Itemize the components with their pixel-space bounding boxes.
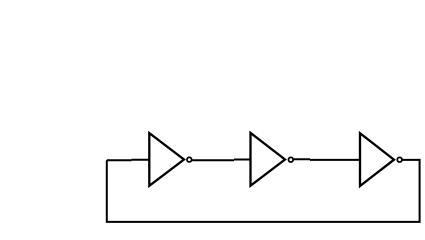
inverter U2 inversion bubble xyxy=(289,157,294,162)
wire: feedback loop from U3 output back to U1 input xyxy=(107,160,420,222)
wire: U2 output to U3 input xyxy=(294,158,360,161)
inverter U1 xyxy=(149,133,184,186)
inverter U2 xyxy=(251,133,286,186)
inverter U3 xyxy=(360,133,394,186)
inverter U3 inversion bubble xyxy=(397,157,402,162)
inverter U1 inversion bubble xyxy=(187,157,192,162)
wire: U1 output to U2 input xyxy=(192,159,250,162)
wire: input to inverter U1 (from feedback node) xyxy=(107,159,150,162)
